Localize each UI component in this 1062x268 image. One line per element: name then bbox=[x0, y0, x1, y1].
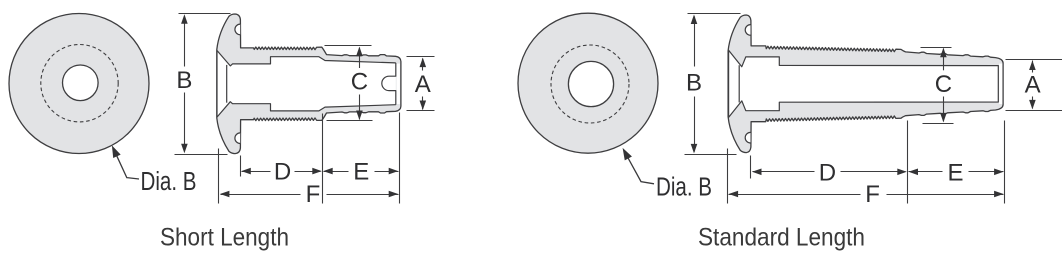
left dim D line bbox=[242, 171, 271, 173]
left flange ear bump top bbox=[235, 24, 240, 35]
left ext line F-left bbox=[218, 149, 220, 204]
right dim F line bbox=[729, 194, 861, 196]
svg-text:B: B bbox=[686, 70, 702, 97]
right ext line E/F right bbox=[1004, 121, 1006, 204]
left flange recess flat face line bbox=[226, 65, 228, 103]
right tip end face strip bbox=[999, 64, 1002, 104]
left ext line D-left bbox=[240, 156, 242, 177]
left dim B extension top bbox=[179, 13, 231, 15]
right side view body bbox=[728, 15, 1003, 153]
left ext line D/E bbox=[322, 114, 324, 204]
right front view outer disc bbox=[518, 13, 658, 153]
left dim A line bbox=[422, 59, 424, 71]
left tip inner wall with slot notch bbox=[382, 63, 396, 105]
svg-text:D: D bbox=[819, 159, 836, 186]
right dim B extension bottom bbox=[685, 154, 737, 156]
left dim C extension top bbox=[325, 45, 372, 47]
right dim B line bbox=[694, 17, 696, 67]
right ext line D/E bbox=[907, 121, 909, 204]
svg-text:Short Length: Short Length bbox=[160, 223, 289, 251]
left dim C line bbox=[359, 48, 361, 69]
svg-text:E: E bbox=[947, 159, 963, 186]
right dim C extension bottom bbox=[923, 123, 954, 125]
right dim C line bbox=[943, 49, 945, 71]
right ext line F-left bbox=[727, 149, 729, 204]
left Dia. B leader bbox=[114, 149, 140, 179]
svg-text:C: C bbox=[351, 69, 368, 96]
left front view bore hole bbox=[63, 65, 99, 101]
right front view hidden barb circle (dashed) bbox=[551, 45, 629, 123]
left dim C extension bottom bbox=[327, 120, 373, 122]
right flange recess flat face line bbox=[738, 65, 740, 102]
svg-text:B: B bbox=[176, 67, 192, 94]
left side view body bbox=[217, 14, 401, 154]
svg-text:E: E bbox=[353, 159, 369, 186]
right dim C extension top bbox=[921, 47, 952, 49]
right front view bore hole bbox=[568, 61, 613, 106]
right dim A line bbox=[1032, 61, 1034, 73]
right dim E line bbox=[909, 171, 943, 173]
svg-text:D: D bbox=[274, 159, 291, 186]
svg-text:Dia. B: Dia. B bbox=[656, 174, 712, 202]
svg-text:C: C bbox=[935, 71, 952, 98]
right dim D line bbox=[753, 171, 815, 173]
right flange ear bump bottom bbox=[745, 132, 750, 143]
right dim A extension top bbox=[1006, 59, 1062, 61]
left dim B line bbox=[184, 17, 186, 67]
left dim A extension bottom bbox=[407, 110, 435, 112]
left front view outer disc bbox=[9, 14, 149, 154]
left ext line E/F right bbox=[399, 113, 401, 204]
left dim C label bbox=[349, 68, 369, 94]
right bore (section) bbox=[729, 50, 999, 117]
svg-text:Standard Length: Standard Length bbox=[698, 224, 865, 252]
svg-text:A: A bbox=[1025, 72, 1041, 99]
right dim B extension top bbox=[688, 13, 741, 15]
left bore (section) bbox=[217, 51, 396, 118]
right ext line D-left bbox=[750, 156, 752, 179]
left dim E line bbox=[324, 171, 349, 173]
left dim A extension top bbox=[407, 56, 435, 58]
svg-text:F: F bbox=[865, 181, 880, 208]
left dim F line bbox=[221, 194, 301, 196]
svg-text:F: F bbox=[306, 181, 321, 208]
left flange ear bump bottom bbox=[235, 133, 240, 144]
left dim B extension bottom bbox=[175, 154, 228, 156]
right Dia. B leader bbox=[625, 152, 655, 184]
right dim A extension bottom bbox=[1006, 110, 1062, 112]
svg-text:Dia. B: Dia. B bbox=[141, 168, 197, 196]
left front view hidden barb circle (dashed) bbox=[41, 44, 118, 121]
left tip end face strip bbox=[397, 64, 400, 104]
right flange ear bump top bbox=[745, 25, 750, 36]
right dim C label bbox=[933, 70, 953, 96]
svg-text:A: A bbox=[415, 71, 431, 98]
